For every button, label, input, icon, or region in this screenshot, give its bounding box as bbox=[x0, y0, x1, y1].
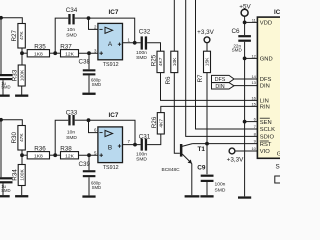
node B2 bbox=[20, 153, 24, 157]
svg-text:10: 10 bbox=[251, 146, 256, 151]
svg-text:R30: R30 bbox=[11, 131, 18, 143]
svg-text:BC848C: BC848C bbox=[162, 167, 181, 173]
svg-text:12: 12 bbox=[251, 53, 256, 58]
resistor R37 bbox=[61, 50, 79, 57]
pin names bbox=[260, 21, 282, 158]
resistor R27 bbox=[18, 24, 25, 49]
svg-text:B: B bbox=[108, 145, 112, 152]
svg-text:GND: GND bbox=[260, 57, 273, 63]
pin numbers bbox=[251, 17, 256, 151]
op-amp IC7.A bbox=[98, 23, 123, 59]
svg-text:R26: R26 bbox=[151, 116, 158, 128]
svg-text:C32: C32 bbox=[139, 28, 151, 35]
svg-text:Si4: Si4 bbox=[276, 164, 281, 171]
svg-text:IC7: IC7 bbox=[109, 9, 119, 16]
wire C33 left lead to node C2 bbox=[55, 120, 68, 155]
wire C34 right lead / feedback node E1 bbox=[75, 17, 89, 19]
wire node to R27 bbox=[0, 18, 22, 24]
svg-text:SMD: SMD bbox=[136, 157, 147, 163]
ground (1u bottom) bbox=[0, 195, 10, 197]
svg-text:IC7: IC7 bbox=[109, 112, 119, 119]
svg-text:DIN: DIN bbox=[215, 84, 224, 90]
svg-text:10K: 10K bbox=[172, 57, 178, 66]
node C1 bbox=[53, 51, 57, 55]
node SEN bbox=[243, 120, 247, 124]
ground (C39) bbox=[82, 195, 95, 197]
wire C33 right lead / feedback node E2 bbox=[75, 119, 89, 121]
wire node E1 to pin 2 bbox=[89, 18, 98, 29]
svg-text:C34: C34 bbox=[66, 7, 78, 14]
svg-text:SMD: SMD bbox=[1, 85, 10, 90]
svg-text:4K7: 4K7 bbox=[158, 119, 164, 128]
ground (1u top) bbox=[0, 95, 10, 97]
svg-text:13: 13 bbox=[251, 80, 256, 85]
wire T1 emitter to ground bbox=[191, 164, 193, 196]
wire node B2 to R34 bbox=[21, 155, 23, 164]
node VDD bbox=[243, 21, 247, 25]
svg-text:100n: 100n bbox=[136, 50, 147, 56]
svg-text:12K: 12K bbox=[65, 153, 74, 159]
wire R37 to op-amp pin3 bbox=[79, 52, 98, 54]
svg-text:SMD: SMD bbox=[232, 48, 243, 53]
svg-text:R37: R37 bbox=[60, 43, 72, 50]
wire C32 to R25 bbox=[147, 43, 160, 51]
resistor R38 bbox=[61, 152, 79, 159]
node C2 bbox=[53, 153, 57, 157]
op-amp IC7.B bbox=[98, 127, 123, 163]
wire left vertical to 1u cap (bottom) bbox=[0, 120, 2, 177]
svg-text:12K: 12K bbox=[65, 51, 74, 57]
resistor R36 bbox=[22, 154, 27, 156]
svg-text:47K: 47K bbox=[19, 31, 25, 40]
ground (C9) bbox=[200, 195, 213, 197]
svg-text:R36: R36 bbox=[34, 145, 46, 152]
node D1 bbox=[87, 51, 91, 55]
node R-in junction bbox=[0, 118, 3, 122]
node L-in junction bbox=[0, 16, 3, 20]
svg-text:DFS: DFS bbox=[260, 77, 272, 83]
svg-text:R7: R7 bbox=[197, 74, 204, 83]
svg-text:SMD: SMD bbox=[92, 185, 102, 190]
svg-text:15: 15 bbox=[251, 101, 256, 106]
node B1 bbox=[20, 51, 24, 55]
svg-text:R25: R25 bbox=[151, 54, 158, 66]
wire R34 to ground bbox=[21, 186, 23, 196]
svg-text:TS912: TS912 bbox=[103, 62, 119, 68]
resistor R34 bbox=[18, 165, 25, 186]
svg-text:+3,3V: +3,3V bbox=[197, 29, 214, 36]
svg-text:47K: 47K bbox=[19, 133, 25, 142]
svg-text:SMD: SMD bbox=[215, 187, 226, 193]
label flag DFS bbox=[212, 75, 235, 82]
wire R26 to RIN line bbox=[161, 106, 258, 112]
svg-text:1K8: 1K8 bbox=[34, 153, 43, 159]
output wire pin 1 bbox=[123, 42, 141, 44]
svg-text:C31: C31 bbox=[139, 134, 151, 141]
svg-text:SMD: SMD bbox=[1, 188, 10, 193]
ground rail bbox=[244, 42, 246, 197]
svg-text:SDIO: SDIO bbox=[260, 135, 275, 141]
svg-text:IC8: IC8 bbox=[274, 9, 280, 16]
transistor T1 BC848C bbox=[180, 144, 183, 157]
svg-text:VDD: VDD bbox=[260, 21, 272, 27]
svg-text:SCLK: SCLK bbox=[260, 127, 275, 133]
resistor R6 bbox=[173, 0, 175, 51]
wire node E2 to pin 6 bbox=[89, 120, 98, 132]
wire feedback to output bbox=[89, 18, 135, 43]
svg-text:SMD: SMD bbox=[92, 82, 102, 87]
wire node to R30 bbox=[0, 120, 22, 126]
svg-text:R33: R33 bbox=[12, 69, 19, 81]
resistor R30 bbox=[18, 126, 25, 151]
svg-text:4K7: 4K7 bbox=[158, 57, 164, 66]
svg-text:10n: 10n bbox=[67, 129, 75, 135]
svg-text:TS912: TS912 bbox=[103, 165, 119, 171]
resistor R35 bbox=[22, 52, 27, 54]
supply +3.3V (VIO) bbox=[229, 148, 235, 154]
resistor R26 bbox=[157, 113, 164, 134]
svg-text:+3,3V: +3,3V bbox=[227, 156, 244, 163]
capacitor 1u SMD (bottom) bbox=[0, 177, 13, 179]
svg-text:SMD: SMD bbox=[66, 33, 77, 39]
wire R27 to node B1 bbox=[21, 48, 23, 53]
capacitor 1u SMD (top) bbox=[0, 74, 13, 76]
wire SCLK vertical bbox=[196, 0, 258, 129]
svg-text:T1: T1 bbox=[198, 146, 206, 153]
svg-text:10n: 10n bbox=[67, 27, 75, 33]
svg-text:SMD: SMD bbox=[66, 135, 77, 141]
svg-text:R27: R27 bbox=[11, 29, 18, 41]
svg-text:DIN: DIN bbox=[260, 84, 270, 90]
svg-text:100n: 100n bbox=[136, 152, 147, 158]
svg-text:C33: C33 bbox=[66, 110, 78, 117]
wire R6 to T1 base bbox=[174, 73, 180, 154]
wire R38 to op-amp pin5 bbox=[79, 154, 98, 156]
wire C31 to R26 bbox=[147, 134, 161, 145]
svg-text:16: 16 bbox=[251, 95, 256, 100]
node D2 bbox=[87, 153, 91, 157]
wire RST line bbox=[192, 143, 257, 145]
svg-text:R6: R6 bbox=[165, 76, 172, 85]
svg-text:SMD: SMD bbox=[136, 55, 147, 61]
svg-text:G: G bbox=[277, 151, 280, 157]
wire R7 down to RST node bbox=[206, 73, 208, 144]
svg-text:100n: 100n bbox=[215, 182, 226, 188]
node F2 bbox=[133, 143, 137, 147]
node F1 bbox=[133, 41, 137, 45]
svg-text:A: A bbox=[108, 41, 113, 48]
small box fragment bottom right bbox=[275, 176, 282, 183]
svg-text:14: 14 bbox=[251, 74, 256, 79]
svg-text:1K8: 1K8 bbox=[34, 51, 43, 57]
resistor R7 bbox=[204, 51, 211, 72]
ground (T1 emitter) bbox=[185, 195, 200, 197]
svg-text:SEN: SEN bbox=[260, 120, 272, 126]
resistor R25 bbox=[157, 51, 164, 72]
svg-text:C9: C9 bbox=[197, 164, 206, 171]
svg-text:R38: R38 bbox=[60, 145, 72, 152]
svg-text:100K: 100K bbox=[19, 69, 25, 81]
svg-text:R35: R35 bbox=[34, 43, 46, 50]
wire R33 to ground bbox=[21, 86, 23, 95]
wire left vertical to 1u cap bbox=[0, 18, 2, 74]
wire SDIO vertical bbox=[186, 0, 258, 136]
resistor R33 bbox=[18, 65, 25, 86]
svg-text:RST: RST bbox=[260, 142, 272, 148]
label flag DIN bbox=[212, 83, 235, 89]
output wire pin 7 bbox=[123, 144, 141, 146]
wire R25 to LIN line bbox=[161, 73, 258, 101]
wire C34 left lead to node C1 bbox=[55, 18, 68, 53]
ground (R34) bbox=[15, 195, 28, 197]
ground (C38) bbox=[82, 93, 95, 95]
svg-text:100K: 100K bbox=[19, 169, 25, 181]
ground (rail) bbox=[238, 196, 251, 198]
wire R30 to node B2 bbox=[21, 150, 23, 155]
wire VIO bbox=[235, 150, 258, 152]
wire node B1 to R33 bbox=[21, 53, 23, 65]
svg-text:VIO: VIO bbox=[260, 149, 270, 155]
svg-text:RIN: RIN bbox=[260, 105, 270, 111]
svg-text:15K: 15K bbox=[205, 57, 211, 66]
node GND bbox=[243, 57, 247, 61]
node RST/C9 bbox=[205, 142, 209, 146]
ground (R33) bbox=[15, 95, 28, 97]
wire feedback to output bbox=[89, 120, 136, 144]
svg-text:R34: R34 bbox=[12, 169, 19, 181]
svg-text:C6: C6 bbox=[231, 28, 240, 35]
